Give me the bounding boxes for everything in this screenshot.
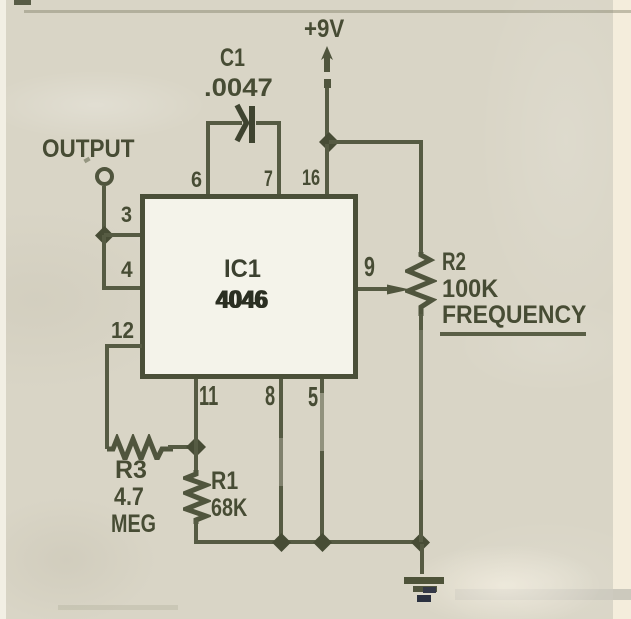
node +9V label: [304, 17, 344, 42]
wire pin 3 horizontal: [104, 233, 142, 237]
wire pin 5 vertical: [320, 379, 324, 544]
node junction pin5 rail: [313, 533, 332, 552]
wire junction down to pin4 row: [102, 235, 106, 290]
pin 9 label: [364, 253, 375, 281]
node junction supply: [319, 132, 339, 152]
wire pin 9 horizontal: [358, 287, 394, 291]
pin 12 label: [111, 319, 134, 342]
ink speck near OUTPUT: [83, 157, 90, 163]
resistor R2 label: [442, 250, 466, 275]
capacitor C1 label: [220, 46, 245, 71]
resistor R1 label: [211, 469, 238, 494]
wire pin 4 horizontal: [102, 286, 142, 290]
wire cap branch right horizontal: [256, 121, 281, 125]
IC1 reference label: [224, 257, 261, 282]
power arrow +9V: [316, 46, 340, 90]
pin 4 label: [121, 259, 133, 281]
wire R1 bottom to rail: [194, 520, 198, 544]
wire down to R2 top: [419, 140, 423, 256]
R2 function label FREQUENCY: [442, 303, 586, 328]
pin 6 label: [191, 169, 202, 191]
wire rail to ground: [420, 544, 424, 574]
wire +9V stem down to junction: [325, 88, 329, 144]
op IC1 box: [140, 194, 358, 379]
wire pin 8 vertical: [279, 379, 283, 544]
wire pin 16 from junction into IC: [325, 144, 329, 196]
FREQUENCY underline: [440, 332, 586, 336]
pin 8 label: [265, 382, 275, 410]
node junction pin8 rail: [272, 533, 291, 552]
resistor R3 zigzag: [107, 434, 173, 460]
resistor R3 label: [115, 458, 147, 483]
wire R2 bottom vertical to rail: [419, 314, 423, 542]
wire pin 7 vertical: [277, 121, 281, 196]
C1 value label .0047: [204, 76, 273, 101]
potentiometer R2 wiper arrow: [387, 280, 410, 299]
pin 11 label: [199, 382, 218, 410]
wire pin 12 horizontal: [105, 344, 142, 348]
wire cap branch left horizontal: [206, 121, 242, 125]
R3 value 4.7: [114, 485, 144, 510]
pin 3 label: [121, 204, 132, 226]
wire pin 12 vertical down: [105, 344, 109, 449]
pin 7 label: [264, 168, 273, 190]
wire junction to R2 top corner: [329, 140, 423, 144]
potentiometer R2 zigzag: [405, 252, 437, 316]
node junction R2 rail: [411, 533, 430, 552]
wire output down: [102, 186, 106, 236]
paper edge strips: [0, 0, 6, 619]
node junction output: [95, 226, 114, 245]
resistor R1 zigzag: [183, 470, 211, 524]
OUTPUT terminal circle: [94, 166, 115, 187]
R2 value 100K: [442, 277, 498, 302]
wire R3 to junction: [168, 445, 196, 449]
pin 5 label: [308, 383, 318, 411]
R3 value MEG: [111, 512, 156, 537]
node OUTPUT label: [42, 137, 135, 162]
IC1 part number 4046: [216, 288, 268, 313]
pin 16 label: [302, 167, 320, 189]
node junction pin11/R3/R1: [186, 437, 206, 457]
wire pin 6 vertical: [206, 121, 210, 196]
wire pin 11 vertical: [194, 379, 198, 473]
R1 value 68K: [211, 496, 247, 521]
ground symbol: [402, 576, 446, 604]
capacitor C1 symbol: [230, 100, 262, 146]
wire bottom rail: [194, 540, 423, 544]
